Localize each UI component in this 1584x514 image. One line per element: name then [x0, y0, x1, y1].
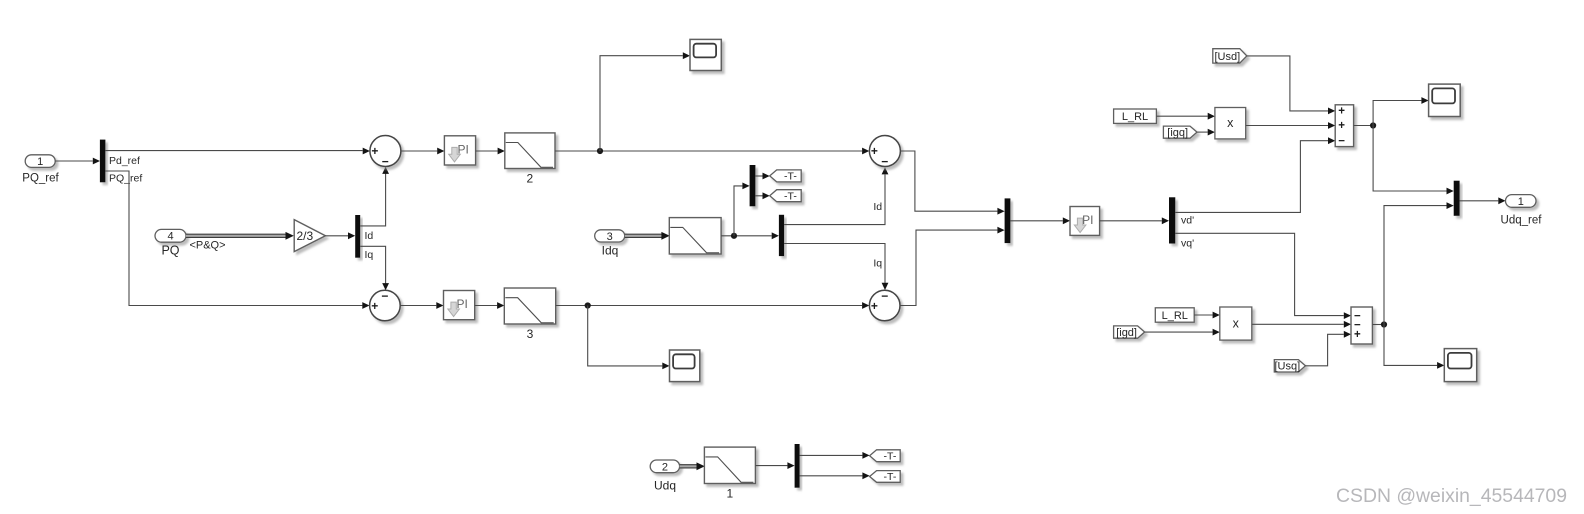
- wire L_RL to product X2: [1194, 314, 1212, 316]
- arrowhead into goto T2: [763, 192, 770, 199]
- svg-text:−: −: [381, 289, 388, 303]
- arrowhead into sum S6 plus: [1344, 331, 1351, 338]
- signal label vd': [1181, 215, 1194, 227]
- wire mux M2 to outport: [1460, 200, 1499, 202]
- arrowhead into mux M2 in1: [1447, 188, 1454, 195]
- PI controller PI1: [444, 136, 475, 165]
- svg-text:+: +: [1354, 329, 1361, 341]
- svg-text:4: 4: [167, 231, 173, 243]
- wire vd' to sum S5 minus: [1175, 141, 1328, 213]
- svg-text:2: 2: [527, 172, 534, 186]
- filter block 1: [704, 447, 755, 500]
- arrowhead into demux D2: [348, 232, 355, 239]
- svg-text:[igd]: [igd]: [1116, 327, 1137, 339]
- svg-text:Udq_ref: Udq_ref: [1501, 215, 1543, 227]
- mux M2: [1454, 181, 1460, 216]
- svg-text:Udq: Udq: [654, 479, 676, 493]
- svg-text:1: 1: [727, 487, 734, 501]
- wire sum S6 output: [1372, 324, 1384, 326]
- arrowhead into sum S4 left: [862, 302, 869, 309]
- svg-text:PI: PI: [457, 142, 468, 156]
- wire sum S2 to PI2: [400, 305, 436, 307]
- arrowhead into product X1 in2: [1208, 129, 1215, 136]
- signal label PQ_ref: [109, 173, 142, 185]
- sum S4: [869, 289, 900, 321]
- arrowhead into filter F2: [498, 148, 505, 155]
- wire PI2 to filter F3: [475, 305, 497, 307]
- svg-text:[Usq]: [Usq]: [1275, 361, 1301, 373]
- wire product X2 to sum S6 minus2: [1252, 323, 1344, 325]
- svg-text:Iq: Iq: [365, 249, 374, 261]
- sum S1: [370, 136, 401, 169]
- arrowhead into demux D5: [1162, 217, 1169, 224]
- svg-text:-T-: -T-: [784, 190, 797, 202]
- arrowhead into scope Sc3: [1421, 97, 1428, 104]
- arrowhead into scope Sc2: [662, 363, 669, 370]
- arrowhead into demux D6: [787, 462, 794, 469]
- wire L_RL to product X1: [1156, 115, 1207, 117]
- demux D3: [750, 165, 756, 206]
- svg-text:CSDN @weixin_45544709: CSDN @weixin_45544709: [1336, 485, 1567, 507]
- signal label P&amp;Q: [189, 240, 225, 252]
- wire branch up to scope Sc1: [600, 56, 683, 151]
- arrowhead into sum S2 left: [362, 302, 369, 309]
- wire branch down to scope Sc4: [1384, 325, 1437, 366]
- wire filter F2 to sum S3: [555, 150, 862, 152]
- label Udq: [654, 479, 676, 493]
- wire PQ_ref down to sum S2: [105, 171, 362, 306]
- svg-text:1: 1: [37, 156, 43, 168]
- arrowhead into sum S1 bottom: [382, 167, 389, 174]
- junction after S5: [1370, 122, 1376, 128]
- wire D6 out2 to goto T4: [800, 475, 863, 477]
- svg-text:PI: PI: [457, 297, 468, 311]
- goto tag T4 -T-: [870, 471, 901, 483]
- wire PI1 to filter F2: [476, 150, 498, 152]
- scope Sc3: [1429, 84, 1461, 116]
- arrowhead into demux D4: [772, 232, 779, 239]
- wire branch down to mux M2: [1373, 126, 1446, 192]
- svg-text:Pd_ref: Pd_ref: [109, 155, 140, 167]
- wire D3 out2 to goto T2: [755, 195, 762, 197]
- svg-text:+: +: [1338, 106, 1345, 118]
- from tag Usd: [1213, 49, 1247, 63]
- wire sum S4 to mux M1: [900, 230, 997, 305]
- wire F4 to demux D4: [721, 235, 772, 237]
- svg-text:x: x: [1233, 316, 1240, 330]
- vector wire Udq to filter F5: [680, 462, 705, 470]
- wire PI3 to demux D5: [1100, 220, 1162, 222]
- wire Iq down to sum S2: [360, 246, 385, 283]
- svg-text:+: +: [871, 299, 878, 313]
- svg-text:Idq: Idq: [602, 244, 619, 258]
- arrowhead into sum S5 plus1: [1328, 108, 1335, 115]
- inport 1 PQ_ref: [25, 155, 55, 168]
- filter block F4: [669, 218, 721, 254]
- arrowhead into mux M1 in2: [997, 227, 1004, 234]
- wire product X1 to sum S5 plus2: [1246, 125, 1328, 127]
- wire branch to scope Sc3: [1373, 101, 1421, 126]
- arrowhead into product X2 in2: [1213, 329, 1220, 336]
- svg-text:+: +: [371, 299, 378, 313]
- wire branch down to scope Sc2: [588, 306, 663, 366]
- arrowhead into scope Sc4: [1437, 362, 1444, 369]
- wire branch up to demux D3: [734, 186, 742, 236]
- PI controller PI3: [1070, 207, 1100, 236]
- signal label Iq at D4: [873, 258, 882, 270]
- svg-text:Id: Id: [873, 201, 882, 213]
- wire mux M1 to PI3: [1010, 220, 1062, 222]
- junction on bottom row: [585, 302, 591, 308]
- svg-text:−: −: [382, 155, 389, 169]
- svg-text:L_RL: L_RL: [1122, 111, 1148, 123]
- arrowhead into mux M1 in1: [997, 208, 1004, 215]
- svg-text:vq': vq': [1181, 238, 1194, 250]
- product block X2: [1220, 307, 1252, 340]
- wire gain to demux D2: [325, 235, 348, 237]
- inport 3 Idq: [595, 230, 625, 243]
- arrowhead into sum S2 top: [382, 283, 389, 290]
- svg-text:2: 2: [662, 461, 668, 473]
- svg-text:1: 1: [1518, 196, 1524, 208]
- svg-text:−: −: [1338, 136, 1345, 148]
- from tag Usq: [1274, 360, 1305, 373]
- svg-text:+: +: [871, 144, 878, 158]
- demux D2: [355, 215, 360, 258]
- inport 4 PQ: [155, 229, 186, 242]
- label Udq_ref: [1501, 215, 1543, 227]
- svg-text:-T-: -T-: [883, 450, 896, 462]
- arrowhead into PI3: [1063, 217, 1070, 224]
- wire D3 out1 to goto T1: [755, 175, 762, 177]
- svg-text:-T-: -T-: [883, 471, 896, 483]
- svg-text:3: 3: [527, 327, 534, 341]
- arrowhead into sum S1 left: [363, 148, 370, 155]
- scope Sc4: [1444, 349, 1476, 382]
- wire vq' to sum S6 minus1: [1175, 233, 1344, 315]
- wire filter F3 to sum S4: [556, 305, 862, 307]
- signal label Iq at D2: [365, 249, 374, 261]
- svg-text:<P&Q>: <P&Q>: [189, 240, 225, 252]
- sum block S5: [1335, 105, 1353, 148]
- junction after F4: [731, 233, 737, 239]
- svg-text:[Usd]: [Usd]: [1214, 51, 1240, 63]
- filter block 2: [505, 133, 555, 186]
- filter block 3: [504, 288, 555, 341]
- arrowhead into sum S5 minus: [1328, 137, 1335, 144]
- svg-text:−: −: [881, 155, 888, 169]
- wire D6 out1 to goto T3: [800, 454, 863, 456]
- signal label Id at D4: [873, 201, 882, 213]
- arrowhead into sum S3 bottom: [882, 167, 889, 174]
- wire Id up to sum S1: [360, 174, 385, 226]
- goto tag T1 -T-: [770, 170, 802, 183]
- svg-text:−: −: [881, 289, 888, 303]
- wire sum S5 output: [1354, 125, 1374, 127]
- svg-text:-T-: -T-: [784, 171, 797, 183]
- svg-text:PQ_ref: PQ_ref: [109, 173, 142, 185]
- outport 1 Udq_ref: [1506, 195, 1537, 208]
- constant L_RL upper: [1114, 109, 1157, 123]
- sum S3: [869, 136, 900, 169]
- wire F5 to demux D6: [755, 465, 787, 467]
- svg-text:[igq]: [igq]: [1167, 127, 1188, 139]
- constant L_RL lower: [1155, 308, 1194, 322]
- wire Usd to sum S5 plus1: [1247, 56, 1328, 111]
- demux D5: [1169, 197, 1175, 243]
- svg-text:2/3: 2/3: [297, 229, 314, 243]
- mux M1: [1005, 198, 1011, 243]
- sum block S6: [1351, 307, 1372, 344]
- gain block 2/3: [294, 220, 325, 252]
- arrowhead into sum S5 plus2: [1328, 122, 1335, 129]
- svg-text:PQ: PQ: [161, 244, 179, 258]
- signal label vq': [1181, 238, 1194, 250]
- arrowhead into sum S4 top: [882, 283, 889, 290]
- from tag igq: [1163, 126, 1197, 139]
- svg-text:PQ_ref: PQ_ref: [22, 173, 59, 185]
- svg-text:+: +: [371, 144, 378, 158]
- svg-text:+: +: [1338, 120, 1345, 132]
- arrowhead into mux M2 in2: [1447, 202, 1454, 209]
- arrowhead into sum S6 minus2: [1344, 321, 1351, 328]
- wire sum S1 to PI1: [401, 150, 437, 152]
- svg-text:vd': vd': [1181, 215, 1194, 227]
- junction on top row: [597, 148, 603, 154]
- junction after S6: [1381, 321, 1387, 327]
- demux D4: [779, 215, 784, 256]
- svg-text:x: x: [1227, 116, 1234, 130]
- label PQ: [161, 244, 179, 258]
- arrowhead into demux D1: [93, 158, 100, 165]
- wire D4 Id up to sum S3: [784, 175, 885, 225]
- demux D1: [100, 140, 106, 183]
- product block X1: [1215, 108, 1246, 139]
- wire inport1 to demux D1: [55, 160, 93, 162]
- goto tag T3 -T-: [870, 450, 901, 463]
- wire sum S3 to mux M1: [900, 151, 997, 211]
- arrowhead into sum S6 minus1: [1344, 312, 1351, 319]
- signal label Id at D2: [365, 230, 374, 242]
- arrowhead into product X2 in1: [1213, 312, 1220, 319]
- svg-text:PI: PI: [1082, 213, 1093, 227]
- svg-text:L_RL: L_RL: [1162, 310, 1188, 322]
- from tag igd: [1114, 326, 1145, 339]
- arrowhead into goto T3: [862, 452, 869, 459]
- label PQ_ref: [22, 173, 59, 185]
- vector wire Idq to filter F4: [625, 232, 670, 240]
- demux D6: [795, 444, 800, 488]
- svg-text:Iq: Iq: [873, 258, 882, 270]
- wire Pd_ref to sum S1: [105, 150, 362, 152]
- arrowhead into outport 1: [1498, 197, 1505, 204]
- watermark CSDN: [1336, 485, 1567, 507]
- wire Usq to sum S6 plus: [1305, 334, 1343, 366]
- vector wire PQ to gain: [186, 232, 294, 240]
- signal label Pd_ref: [109, 155, 140, 167]
- svg-text:3: 3: [607, 231, 613, 243]
- PI controller PI2: [444, 291, 475, 320]
- arrowhead into sum S3 left: [862, 148, 869, 155]
- scope Sc1: [690, 39, 721, 70]
- arrowhead into filter F3: [497, 302, 504, 309]
- arrowhead into goto T4: [862, 472, 869, 479]
- wire igd to product X2: [1145, 331, 1213, 333]
- svg-text:Id: Id: [365, 230, 374, 242]
- label Idq: [602, 244, 619, 258]
- inport 2 Udq: [650, 460, 679, 473]
- arrowhead into product X1 in1: [1208, 113, 1215, 120]
- goto tag T2 -T-: [770, 190, 802, 203]
- sum S2: [370, 289, 401, 321]
- arrowhead into scope Sc1: [683, 52, 690, 59]
- wire branch up to mux M2 in2: [1384, 206, 1447, 325]
- wire D4 Iq down to sum S4: [784, 244, 885, 283]
- arrowhead into demux D3: [742, 183, 749, 190]
- scope Sc2: [670, 350, 700, 382]
- wire igq to product X1: [1197, 131, 1207, 133]
- arrowhead into PI2: [436, 302, 443, 309]
- arrowhead into goto T1: [763, 173, 770, 180]
- arrowhead into PI1: [437, 148, 444, 155]
